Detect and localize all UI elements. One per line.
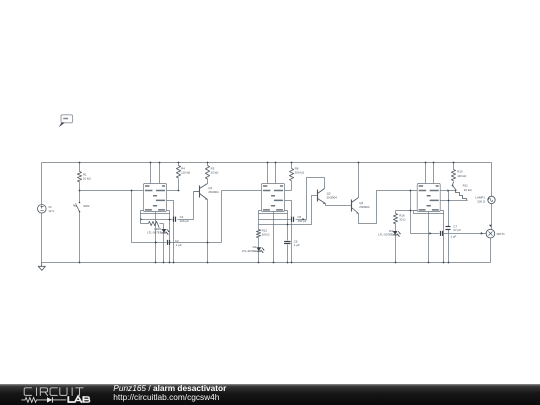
svg-text:2N3904: 2N3904: [359, 205, 370, 209]
wire loop-right down 2: [287, 214, 289, 263]
svg-text:10 kΩ: 10 kΩ: [464, 188, 473, 192]
svg-text:2N3904: 2N3904: [327, 195, 338, 199]
wire IC3 threshold: [441, 200, 468, 202]
wire dis-thr vertical: [448, 191, 450, 263]
resistor R8: [289, 163, 304, 191]
transistor Q3: [352, 198, 370, 214]
svg-text:LTL-307EE: LTL-307EE: [147, 231, 162, 235]
wire loop-right down: [169, 214, 171, 263]
svg-text:10 kΩ: 10 kΩ: [83, 176, 92, 180]
svg-text:LTL-307EE: LTL-307EE: [378, 233, 393, 237]
junction dots: [79, 162, 455, 264]
wire lamp to motor: [489, 204, 492, 230]
svg-text:200 kΩ: 200 kΩ: [295, 171, 305, 175]
wire IC3 gnd stub: [428, 212, 430, 263]
svg-text:2N3904: 2N3904: [208, 190, 219, 194]
op-amp timer U3 (555): [417, 184, 440, 212]
wire Q2 emitter to Q3 base: [326, 204, 352, 206]
svg-text:100 Ω: 100 Ω: [477, 200, 486, 204]
svg-text:47 µF: 47 µF: [453, 228, 461, 232]
wire to IC2 trigger: [222, 191, 262, 243]
wire IC2 discharge: [285, 190, 292, 192]
wire IC1 vdd stub: [150, 163, 152, 184]
wire IC2 control loop: [259, 211, 288, 214]
resistor R3: [141, 214, 164, 228]
wire Q2 collector path: [307, 178, 325, 220]
voltage source V1: [38, 163, 55, 263]
wire IC3 discharge: [441, 189, 456, 192]
wire IC3 control loop: [414, 211, 444, 214]
wire IC2 gnd stub: [273, 212, 275, 263]
svg-text:12 V: 12 V: [48, 209, 54, 213]
wire IC1 discharge: [167, 190, 179, 192]
lamp LAMP1: [475, 163, 495, 204]
wire IC3 rst stub: [433, 163, 435, 184]
wire IC2 out to Q2 base: [259, 196, 318, 225]
wire out to motor line: [410, 191, 412, 234]
svg-text:1 µF: 1 µF: [176, 243, 182, 247]
transistor Q1: [194, 184, 220, 200]
wire trig branch down: [131, 191, 133, 243]
wire IC1 gnd stub: [155, 212, 157, 263]
wire loop-right down 3: [443, 214, 445, 263]
resistor R10: [451, 163, 467, 186]
wire bottom rail: [42, 262, 491, 264]
motor MOT1: [486, 229, 505, 262]
wire top rail: [42, 162, 492, 164]
CircuitLab logo text LAB: [68, 396, 89, 403]
capacitor C5: [259, 215, 307, 223]
LED1: [147, 224, 169, 263]
footer bar: [0, 384, 540, 405]
ground: [38, 263, 45, 271]
CircuitLab logo text CIRCUIT: [24, 388, 83, 396]
wire IC1 threshold: [167, 201, 174, 263]
svg-text:100 µF: 100 µF: [297, 219, 306, 223]
svg-text:110 kΩ: 110 kΩ: [181, 171, 191, 175]
wire IC2 threshold: [285, 201, 292, 263]
wire Q3 emitter to IC3 trigger: [359, 191, 418, 224]
resistor R1: [77, 163, 91, 191]
svg-text:http://circuitlab.com/cgcsw4h: http://circuitlab.com/cgcsw4h: [113, 392, 219, 402]
wire Q3 collector up: [358, 163, 360, 198]
svg-text:200 Ω: 200 Ω: [262, 233, 271, 237]
capacitor C8: [411, 231, 487, 238]
svg-text:100 µF: 100 µF: [180, 219, 189, 223]
resistor R2: [205, 163, 219, 184]
switch SW1: [452, 185, 457, 192]
LED D2: [242, 245, 265, 262]
capacitor C4: [140, 192, 193, 224]
svg-text:10 kΩ: 10 kΩ: [211, 171, 220, 175]
transistor Q2: [318, 189, 338, 205]
CircuitLab logo resistor-diode squiggle: [21, 397, 66, 402]
wire R1 to IC1 trigger: [80, 190, 144, 192]
svg-text:110 kΩ: 110 kΩ: [457, 174, 467, 178]
wire IC2 rst stub: [275, 163, 277, 184]
footer url: [113, 392, 219, 402]
svg-text:1 µF: 1 µF: [294, 243, 300, 247]
resistor R12: [256, 225, 270, 248]
footer title: [113, 383, 227, 393]
note bubble: [59, 115, 73, 127]
svg-text:SW2: SW2: [83, 204, 90, 208]
LED D3: [378, 229, 400, 263]
svg-text:33 Ω: 33 Ω: [399, 218, 406, 222]
svg-text:1 µF: 1 µF: [450, 234, 456, 238]
capacitor C6: [284, 239, 300, 247]
svg-text:MOT1: MOT1: [497, 232, 506, 236]
wire IC3 vdd stub: [425, 163, 427, 184]
wire Q1 emitter down: [207, 200, 209, 263]
capacitor C2: [132, 239, 222, 247]
svg-text:LTL-307EE: LTL-307EE: [242, 249, 257, 253]
op-amp timer U1 (555): [144, 184, 167, 212]
wire IC3 out: [396, 210, 418, 212]
op-amp timer U2 (555): [262, 184, 285, 212]
resistor R4: [176, 163, 191, 191]
resistor R11: [456, 184, 473, 201]
resistor R16: [393, 211, 406, 232]
wire IC2 vdd stub: [267, 163, 269, 184]
capacitor C7: [446, 224, 462, 232]
switch SW2: [74, 191, 90, 263]
wire IC1 control loop: [141, 211, 170, 214]
wire IC1 rst stub: [159, 163, 161, 184]
